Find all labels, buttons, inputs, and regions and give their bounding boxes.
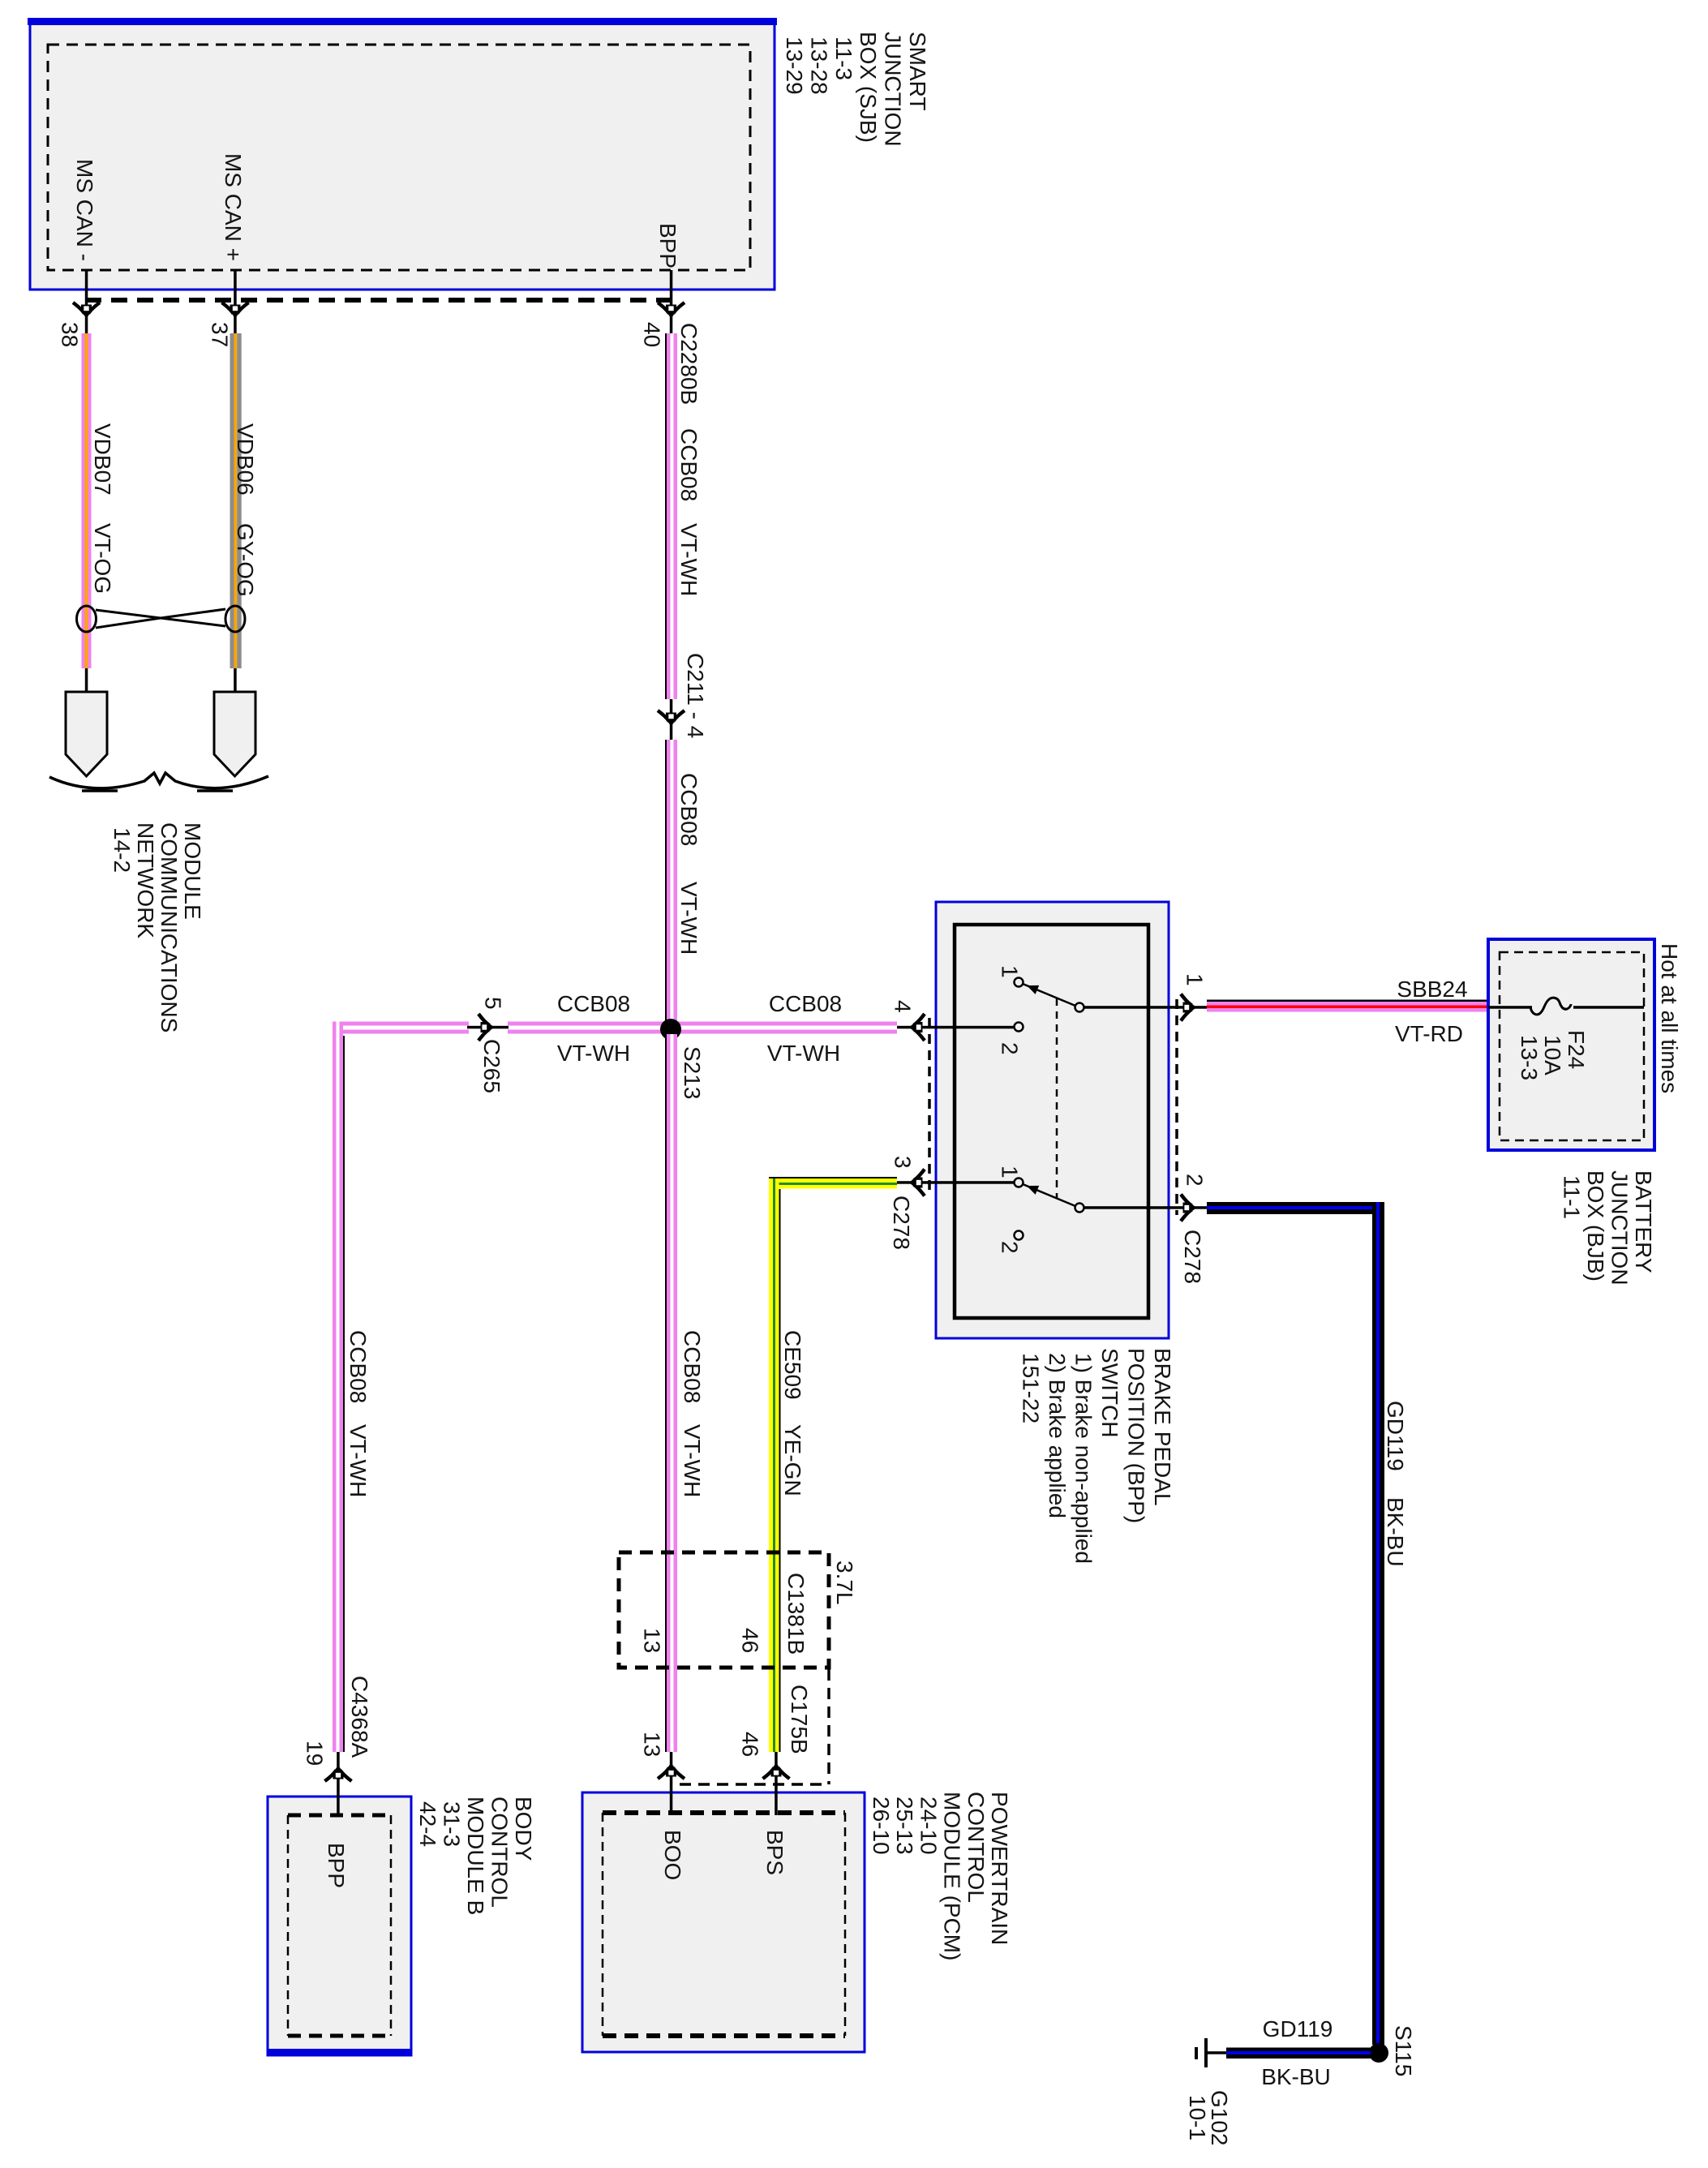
wire VDB06 GY-OG xyxy=(230,333,242,668)
svg-text:25-13: 25-13 xyxy=(892,1797,917,1855)
lead BOO into PCM xyxy=(670,1752,673,1815)
svg-text:C211 - 4: C211 - 4 xyxy=(683,653,708,738)
connector terminal MS CAN + xyxy=(214,692,255,776)
svg-text:S115: S115 xyxy=(1391,2025,1416,2076)
splice junction S213 xyxy=(660,1019,681,1040)
svg-text:1) Brake non-applied: 1) Brake non-applied xyxy=(1071,1353,1096,1564)
wire VDB07 VT-OG xyxy=(82,333,92,668)
wire CCB08 horizontal center xyxy=(508,1022,678,1034)
dashed bus line below SJB xyxy=(85,298,673,303)
in-line connector C265 pin 5 xyxy=(478,1014,495,1041)
C175B dashed bracket vertical xyxy=(827,1669,830,1784)
mechanical link dashed xyxy=(1056,998,1058,1198)
wire CCB08 VT-WH left branch xyxy=(333,1022,343,1753)
svg-text:GD119: GD119 xyxy=(1263,2016,1333,2041)
svg-text:VT-WH: VT-WH xyxy=(557,1041,630,1066)
svg-text:JUNCTION: JUNCTION xyxy=(1607,1170,1633,1286)
svg-text:13-28: 13-28 xyxy=(806,36,831,95)
BPP switch inner case xyxy=(955,925,1148,1318)
svg-text:11-1: 11-1 xyxy=(1560,1175,1585,1219)
svg-text:VDB06: VDB06 xyxy=(233,423,258,496)
svg-text:1: 1 xyxy=(998,1166,1023,1178)
wire CCB08 VT-WH upper xyxy=(665,333,677,699)
svg-text:SMART: SMART xyxy=(905,32,930,111)
twisted pair symbol xyxy=(77,606,246,632)
svg-text:13: 13 xyxy=(640,1732,665,1757)
PCM inner dashed outline xyxy=(603,1813,845,2036)
svg-text:POWERTRAIN: POWERTRAIN xyxy=(987,1792,1012,1945)
svg-text:C278: C278 xyxy=(1180,1230,1205,1284)
svg-text:4: 4 xyxy=(890,1000,916,1013)
svg-text:11-3: 11-3 xyxy=(831,36,856,80)
svg-text:BATTERY: BATTERY xyxy=(1631,1170,1656,1273)
svg-text:VT-WH: VT-WH xyxy=(676,882,702,955)
BPP switch name label xyxy=(1019,1348,1176,1564)
svg-text:CE509: CE509 xyxy=(780,1330,805,1400)
svg-text:10A: 10A xyxy=(1540,1035,1565,1075)
svg-text:Hot at all times: Hot at all times xyxy=(1657,943,1682,1093)
svg-text:CCB08: CCB08 xyxy=(557,991,630,1016)
svg-text:GD119: GD119 xyxy=(1383,1401,1408,1471)
switch 2 arm arrowhead xyxy=(1025,1181,1040,1194)
svg-text:NETWORK: NETWORK xyxy=(133,822,158,938)
lead through C265 xyxy=(467,1026,509,1029)
connector arrow C4368A pin 19 xyxy=(325,1766,352,1782)
ground symbol G102 xyxy=(1195,2038,1208,2067)
connector arrow SJB pin 38 xyxy=(73,303,100,319)
BPP brake pedal position switch box xyxy=(936,902,1169,1338)
svg-text:13-29: 13-29 xyxy=(782,36,807,95)
connector C278 dashed line left xyxy=(928,1018,931,1192)
wire SBB24 VT-RD xyxy=(1207,1000,1488,1012)
svg-text:C278: C278 xyxy=(889,1196,914,1250)
wire CE509 YE-GN horizontal xyxy=(769,1177,897,1189)
svg-text:2) Brake applied: 2) Brake applied xyxy=(1045,1353,1070,1518)
svg-text:3.7L: 3.7L xyxy=(832,1561,857,1605)
svg-text:40: 40 xyxy=(640,322,665,347)
svg-text:1: 1 xyxy=(1182,973,1208,986)
network brace curve xyxy=(49,773,268,791)
svg-text:BOX (BJB): BOX (BJB) xyxy=(1583,1170,1608,1281)
wire outline left branch xyxy=(343,1036,345,1752)
connector arrow pin 1 xyxy=(1181,994,1197,1021)
svg-text:2: 2 xyxy=(998,1241,1023,1254)
svg-text:10-1: 10-1 xyxy=(1185,2095,1210,2140)
svg-text:BPP: BPP xyxy=(324,1843,349,1888)
svg-text:SWITCH: SWITCH xyxy=(1097,1348,1122,1437)
wire outline CE509 vertical xyxy=(779,1189,781,1752)
wire stub SJB pin 40 xyxy=(670,270,673,333)
svg-text:CONTROL: CONTROL xyxy=(487,1797,513,1908)
switch 2 contacts and arm xyxy=(1015,1178,1084,1240)
SJB name label xyxy=(782,32,930,147)
svg-text:BPP: BPP xyxy=(655,223,680,268)
svg-text:CONTROL: CONTROL xyxy=(963,1792,989,1903)
svg-text:19: 19 xyxy=(303,1741,328,1766)
lead pivot to pin 2 xyxy=(1084,1206,1207,1209)
svg-text:BOO: BOO xyxy=(660,1830,685,1880)
svg-text:14-2: 14-2 xyxy=(109,827,135,873)
lead BPS into PCM xyxy=(775,1752,778,1815)
svg-text:MODULE B: MODULE B xyxy=(463,1797,488,1915)
svg-text:VT-WH: VT-WH xyxy=(345,1424,371,1497)
connector arrow C175B pin 46 xyxy=(763,1763,790,1779)
svg-text:1: 1 xyxy=(998,965,1023,978)
svg-text:13-3: 13-3 xyxy=(1517,1035,1542,1080)
connector arrow pin 2 xyxy=(1181,1195,1197,1221)
SJB inner dashed connector outline xyxy=(48,45,750,270)
svg-text:S213: S213 xyxy=(680,1046,705,1099)
svg-text:CCB08: CCB08 xyxy=(345,1330,371,1403)
BJB battery junction box xyxy=(1488,939,1654,1150)
svg-text:GY-OG: GY-OG xyxy=(233,523,258,597)
wire CCB08 VT-WH mid xyxy=(665,740,677,1021)
module communications network label xyxy=(109,822,205,1032)
svg-text:VDB07: VDB07 xyxy=(90,423,115,496)
BJB name label xyxy=(1560,1170,1657,1286)
svg-text:2: 2 xyxy=(998,1042,1023,1055)
svg-text:MS CAN +: MS CAN + xyxy=(221,153,246,261)
svg-text:BODY: BODY xyxy=(511,1797,536,1861)
svg-text:CCB08: CCB08 xyxy=(676,773,702,846)
PCM powertrain control module box xyxy=(582,1792,865,2052)
svg-text:VT-WH: VT-WH xyxy=(676,523,702,596)
svg-text:CCB08: CCB08 xyxy=(680,1330,705,1403)
svg-text:46: 46 xyxy=(738,1628,763,1653)
wire GD119 BK-BU horizontal xyxy=(1207,1202,1384,1214)
lead MS CAN + to connector xyxy=(234,668,237,692)
connector arrow C175B pin 13 xyxy=(658,1763,684,1779)
BCM inner dashed outline xyxy=(288,1815,391,2036)
svg-text:POSITION (BPP): POSITION (BPP) xyxy=(1124,1348,1149,1523)
lead through C211 xyxy=(670,699,673,740)
svg-text:BK-BU: BK-BU xyxy=(1261,2064,1331,2089)
svg-text:42-4: 42-4 xyxy=(415,1801,440,1847)
svg-text:MODULE: MODULE xyxy=(180,822,205,920)
BCM body control module box xyxy=(267,1797,412,2055)
svg-text:C1381B: C1381B xyxy=(783,1573,809,1655)
connector terminal MS CAN - xyxy=(66,692,107,776)
svg-text:C265: C265 xyxy=(479,1039,504,1093)
switch 1 arm arrowhead xyxy=(1025,981,1040,994)
svg-text:3: 3 xyxy=(890,1156,916,1169)
svg-text:CCB08: CCB08 xyxy=(769,991,842,1016)
svg-text:5: 5 xyxy=(481,997,506,1010)
BCM name label xyxy=(415,1797,536,1915)
svg-text:BOX (SJB): BOX (SJB) xyxy=(856,32,881,143)
svg-text:C4368A: C4368A xyxy=(347,1676,372,1758)
connector arrow pin 3 xyxy=(909,1170,925,1196)
svg-text:VT-WH: VT-WH xyxy=(767,1041,840,1066)
connector arrow SJB pin 40 xyxy=(658,303,684,319)
svg-text:24-10: 24-10 xyxy=(916,1797,941,1855)
switch 1 contacts and arm xyxy=(1015,978,1084,1032)
lead pin 4 to contact xyxy=(897,1026,1015,1029)
connector C278 dashed line right xyxy=(1175,999,1178,1215)
wire CE509 YE-GN vertical xyxy=(769,1178,779,1752)
svg-text:151-22: 151-22 xyxy=(1019,1353,1044,1423)
svg-text:VT-OG: VT-OG xyxy=(90,523,115,594)
svg-text:YE-GN: YE-GN xyxy=(780,1424,805,1496)
lead pin 3 to contact xyxy=(897,1181,1015,1184)
svg-text:31-3: 31-3 xyxy=(440,1801,465,1847)
splice junction S115 xyxy=(1369,2043,1388,2063)
svg-text:2: 2 xyxy=(1182,1174,1208,1187)
fuse lead left xyxy=(1488,1006,1532,1009)
PCM name label xyxy=(869,1792,1012,1960)
svg-text:C175B: C175B xyxy=(787,1685,812,1754)
fuse lead right xyxy=(1573,1006,1644,1009)
connector arrow pin 4 xyxy=(909,1014,925,1041)
svg-text:BK-BU: BK-BU xyxy=(1383,1497,1408,1567)
svg-text:MODULE (PCM): MODULE (PCM) xyxy=(940,1792,965,1960)
svg-text:VT-RD: VT-RD xyxy=(1395,1021,1463,1046)
lead MS CAN - to connector xyxy=(85,668,88,692)
svg-text:VT-WH: VT-WH xyxy=(680,1424,705,1497)
svg-text:26-10: 26-10 xyxy=(869,1797,894,1855)
wire CCB08 horizontal left xyxy=(333,1022,469,1034)
wire stub SJB pin 37 xyxy=(234,270,237,333)
svg-text:C2280B: C2280B xyxy=(676,323,702,405)
svg-text:BRAKE PEDAL: BRAKE PEDAL xyxy=(1150,1348,1175,1506)
SJB smart junction box xyxy=(28,18,777,290)
svg-text:JUNCTION: JUNCTION xyxy=(881,32,906,147)
fuse F24 element xyxy=(1530,998,1571,1015)
BJB inner dashed outline xyxy=(1500,952,1644,1140)
svg-text:46: 46 xyxy=(738,1732,763,1757)
wire CCB08 VT-WH lower xyxy=(665,1034,677,1752)
wire GD119 BK-BU vertical xyxy=(1372,1202,1384,2045)
wire CCB08 horizontal right xyxy=(678,1022,897,1034)
ground lead xyxy=(1208,2051,1226,2054)
svg-text:COMMUNICATIONS: COMMUNICATIONS xyxy=(157,822,182,1032)
svg-text:F24: F24 xyxy=(1564,1030,1589,1069)
svg-text:13: 13 xyxy=(640,1628,665,1653)
fuse label F24 10A 13-3 xyxy=(1517,1030,1589,1080)
wire stub SJB pin 38 xyxy=(85,270,88,333)
C1381B dashed connector box xyxy=(619,1552,829,1668)
C175B dashed bracket horizontal xyxy=(680,1783,829,1786)
lead into BCM xyxy=(337,1752,340,1815)
svg-text:37: 37 xyxy=(208,322,233,347)
connector arrow SJB pin 37 xyxy=(222,303,249,319)
ground label G102 10-1 xyxy=(1185,2090,1232,2146)
svg-text:CCB08: CCB08 xyxy=(676,428,702,501)
in-line connector C211 pin 4 xyxy=(658,711,684,727)
lead pivot to pin 1 xyxy=(1084,1006,1207,1009)
wire GD119 BK-BU to ground xyxy=(1226,2048,1371,2059)
svg-text:SBB24: SBB24 xyxy=(1397,977,1467,1002)
svg-text:BPS: BPS xyxy=(762,1830,787,1875)
svg-text:38: 38 xyxy=(58,322,83,347)
svg-text:MS CAN -: MS CAN - xyxy=(72,159,97,261)
